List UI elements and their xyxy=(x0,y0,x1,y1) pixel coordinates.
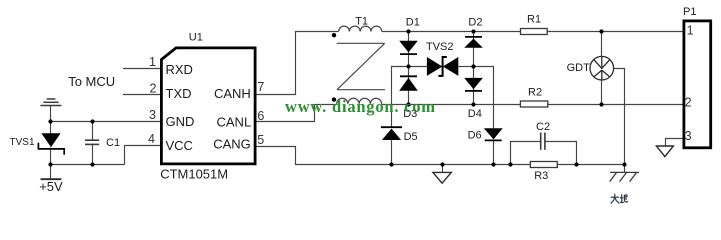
connector P1 box xyxy=(684,21,711,148)
transformer T1 secondary polarity dot xyxy=(332,97,336,101)
resistor R2 xyxy=(520,101,547,107)
wire ground rail xyxy=(392,164,625,166)
svg-text:R3: R3 xyxy=(534,170,548,182)
TVS2 bidirectional suppressor xyxy=(427,57,458,76)
wire right diode chain xyxy=(473,32,475,105)
+5V power bar xyxy=(41,178,62,180)
wire bottom left rail xyxy=(51,164,125,166)
svg-text:CANL: CANL xyxy=(217,114,252,129)
svg-text:5: 5 xyxy=(257,133,264,147)
earth symbol 大地 xyxy=(610,172,639,181)
diode D1 xyxy=(399,41,418,54)
wire GDT earth tap xyxy=(613,69,624,165)
diode D4 xyxy=(464,78,483,91)
wire left diode chain xyxy=(408,32,410,105)
wire pin5 CANG step down to ground rail xyxy=(255,147,392,165)
svg-text:CTM1051M: CTM1051M xyxy=(160,167,228,182)
svg-text:GDT: GDT xyxy=(567,62,591,74)
wire GND row to pin3 xyxy=(51,121,162,123)
wire M2 to D6 branch xyxy=(474,67,494,129)
svg-text:RXD: RXD xyxy=(166,62,193,77)
svg-text:1: 1 xyxy=(149,55,156,69)
wire VCC step to pin4 xyxy=(125,146,162,165)
wire earth stem xyxy=(624,165,626,173)
svg-text:3: 3 xyxy=(149,108,156,122)
wire +5V stem xyxy=(50,165,52,180)
svg-text:TVS1: TVS1 xyxy=(10,137,35,148)
op-chip U1 CTM1051M outline xyxy=(161,48,255,164)
svg-text:1: 1 xyxy=(687,24,694,38)
svg-text:T1: T1 xyxy=(355,15,368,27)
svg-text:P1: P1 xyxy=(683,6,696,18)
wire GDT bottom lead xyxy=(601,80,603,105)
wire GDT top lead xyxy=(601,32,603,57)
wire pin2 to MCU xyxy=(123,94,161,96)
diode D6 xyxy=(484,128,503,140)
wire C2 branch xyxy=(511,142,541,165)
svg-text:U1: U1 xyxy=(189,32,203,44)
diode D5 xyxy=(381,127,402,140)
gas discharge tube GDT xyxy=(590,56,614,80)
svg-text:TVS2: TVS2 xyxy=(426,41,454,53)
wire rail B from secondary to P1 pin2 xyxy=(382,104,683,106)
wire rail A top from transformer to P1 pin1 xyxy=(382,31,683,33)
TVS1 diode xyxy=(38,133,64,155)
wire middle ground stem xyxy=(442,165,444,173)
diode D2 xyxy=(464,37,483,48)
svg-text:2: 2 xyxy=(685,95,692,109)
wire pin6 CANL step to transformer secondary xyxy=(255,105,337,122)
diode D3 xyxy=(399,76,418,91)
transformer T1 secondary winding xyxy=(337,98,382,104)
svg-text:To MCU: To MCU xyxy=(68,74,115,89)
svg-text:4: 4 xyxy=(148,132,155,146)
svg-text:www. diangon. com: www. diangon. com xyxy=(285,97,435,116)
resistor R3 xyxy=(530,162,557,168)
svg-text:D1: D1 xyxy=(406,16,420,28)
svg-text:C2: C2 xyxy=(536,121,550,133)
svg-text:D2: D2 xyxy=(468,16,482,28)
wire M1 to D5 branch xyxy=(392,67,409,128)
ground symbol (3-bar) top left xyxy=(40,99,61,106)
resistor R1 xyxy=(521,29,548,35)
svg-text:D6: D6 xyxy=(468,129,482,141)
svg-text:R1: R1 xyxy=(527,14,541,26)
svg-text:7: 7 xyxy=(257,80,264,94)
wire pin7 CANH up to transformer xyxy=(255,32,339,95)
transformer T1 primary winding xyxy=(339,26,382,31)
transformer T1 primary polarity dot xyxy=(332,33,336,37)
transformer T1 core Z xyxy=(337,43,385,89)
svg-text:CANG: CANG xyxy=(213,137,251,152)
wire TVS2 leads xyxy=(409,66,428,68)
svg-text:D5: D5 xyxy=(404,131,418,143)
svg-text:VCC: VCC xyxy=(166,138,193,153)
svg-text:C1: C1 xyxy=(106,137,120,149)
middle ground triangle xyxy=(433,172,451,183)
wire C1 bottom lead xyxy=(92,144,94,164)
wire TVS1 vertical xyxy=(50,122,52,135)
svg-text:3: 3 xyxy=(685,129,692,143)
wire ground symbol stem xyxy=(50,106,52,122)
svg-text:CANH: CANH xyxy=(214,86,251,101)
wire C1 top lead xyxy=(92,122,94,141)
svg-text:R2: R2 xyxy=(528,87,542,99)
svg-text:6: 6 xyxy=(257,109,264,123)
earth label 大地 glyph strokes xyxy=(611,194,629,204)
P1 chassis ground triangle xyxy=(656,146,673,157)
svg-text:TXD: TXD xyxy=(166,86,192,101)
svg-text:2: 2 xyxy=(150,81,157,95)
svg-text:GND: GND xyxy=(166,114,195,129)
wire P1 pin3 to chassis ground xyxy=(666,139,684,147)
capacitor C2 xyxy=(541,133,545,150)
svg-text:+5V: +5V xyxy=(39,179,63,194)
capacitor C1 xyxy=(85,140,99,144)
svg-text:D4: D4 xyxy=(468,108,482,120)
wire pin1 to MCU xyxy=(123,68,161,70)
